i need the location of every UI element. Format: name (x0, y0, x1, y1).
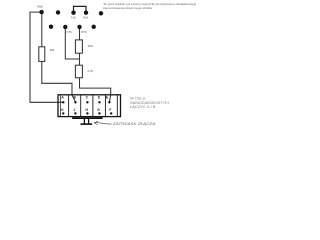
socket pin 2 (56, 10, 60, 14)
pin A dot (62, 101, 64, 103)
socket pin TxD (71, 11, 75, 15)
pin F dot (110, 112, 112, 114)
latch base (81, 123, 93, 125)
pin G dot (98, 112, 100, 114)
svg-text:10K: 10K (88, 44, 94, 48)
connector divider A|B (68, 95, 70, 117)
wire CTS down to junction (65, 27, 79, 59)
socket pin CTS (63, 25, 67, 29)
connector divider B|C (80, 95, 82, 117)
connector right margin box (116, 95, 118, 117)
pin C dot (86, 101, 88, 103)
socket pin GND (39, 10, 43, 14)
svg-text:RTS: RTS (81, 30, 86, 34)
wire GND down to R1 (41, 12, 43, 47)
socket pin RTS (77, 25, 81, 29)
resistor R1 10k (39, 47, 45, 62)
svg-text:10k: 10k (49, 48, 54, 52)
wire R3 bottom to pin E (80, 78, 111, 102)
svg-text:F: F (109, 108, 111, 112)
latch post (83, 119, 85, 124)
pin E dot (108, 101, 110, 103)
latch top bar (72, 117, 103, 119)
svg-text:CTS: CTS (67, 30, 72, 34)
wire RTS down to R2 (79, 27, 81, 40)
resistor R2 10K (75, 40, 82, 53)
pin B dot (74, 101, 76, 103)
loopback bracket TxD-RxD (74, 6, 87, 12)
arrow to latch (94, 123, 111, 124)
wire GND to pin A (30, 12, 63, 102)
pin D dot (98, 101, 100, 103)
note text top right (103, 2, 196, 10)
svg-text:TxD: TxD (71, 16, 76, 20)
pin J dot (74, 112, 76, 114)
socket pin 5 (99, 11, 103, 15)
connector divider C|D (92, 95, 94, 117)
pin K dot (62, 112, 64, 114)
socket pin 6 (49, 25, 53, 29)
wire R2 bottom to R3 top (79, 53, 81, 65)
svg-text:W CELU: W CELU (130, 97, 146, 101)
svg-text:GND: GND (37, 5, 43, 9)
connector left margin line (59, 95, 61, 117)
socket pin 9 (92, 25, 96, 29)
pin H dot (86, 112, 88, 114)
svg-text:zamontowanej obok mego silnika: zamontowanej obok mego silnika (103, 6, 152, 10)
connector X1 body (58, 95, 121, 117)
resistor R3 4,7K (75, 65, 82, 78)
svg-text:4,7K: 4,7K (87, 69, 94, 73)
svg-text:RxD: RxD (83, 16, 88, 20)
svg-text:ZATRZASK ZŁĄCZA: ZATRZASK ZŁĄCZA (112, 122, 157, 126)
wire R1 bottom to pin B (42, 62, 76, 102)
svg-text:G: G (97, 108, 100, 112)
note W CELU (130, 97, 169, 110)
svg-text:ŁĄCZYĆ A I B: ŁĄCZYĆ A I B (130, 104, 156, 109)
socket pin RxD (84, 11, 88, 15)
connector divider D|E (104, 95, 106, 117)
svg-text:J: J (73, 108, 75, 112)
